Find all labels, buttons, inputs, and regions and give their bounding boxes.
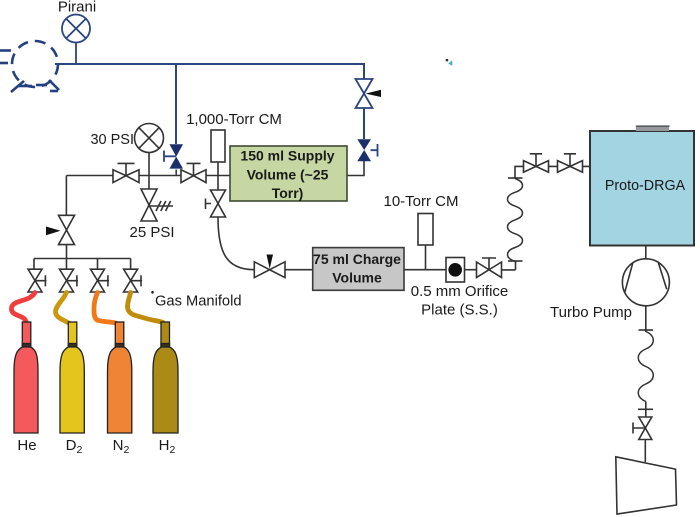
valve V4b (header bowtie right of V1, with stem) — [181, 163, 206, 182]
svg-text:10-Torr CM: 10-Torr CM — [383, 193, 458, 210]
hose D2 (gold) — [55, 293, 71, 325]
wire V11 to charge volume — [285, 269, 313, 271]
Proto-DRGA lid bar — [636, 127, 669, 131]
svg-text:150 ml Supply: 150 ml Supply — [240, 148, 334, 164]
wire supply manifold header — [66, 175, 230, 177]
wire coil to DRGA line — [515, 166, 589, 178]
flex hose FH1 upper tick — [508, 177, 523, 179]
svg-text:30 PSI: 30 PSI — [90, 132, 134, 148]
valve V9 (H2 cylinder valve) — [124, 269, 143, 292]
wire between V2 and V3 (blue) — [363, 108, 365, 139]
wire valve to flex hose — [502, 261, 516, 270]
wire gas manifold header — [34, 259, 131, 270]
wire main vacuum header (blue) — [55, 63, 364, 65]
supply volume tank (green box) — [230, 146, 347, 201]
valve V4 (header bowtie with stem) — [113, 163, 139, 182]
flex hose FH2 lower ticks — [638, 408, 653, 410]
wire V3 to supply volume — [347, 161, 364, 176]
cylinder D2 — [60, 322, 84, 433]
wire orifice to valve — [465, 269, 477, 271]
valve V8 (N2 cylinder valve) — [91, 269, 110, 292]
svg-text:Volume (~25: Volume (~25 — [247, 167, 329, 183]
capacitance manometer CM1 (1,000-Torr) — [211, 130, 225, 162]
charge volume tank (gray box) — [313, 248, 404, 291]
cylinder He — [14, 322, 38, 433]
wire valve to backing pump — [644, 440, 646, 463]
svg-text:25 PSI: 25 PSI — [129, 224, 174, 241]
valve V6 (He cylinder valve) — [28, 269, 47, 292]
svg-text:He: He — [17, 437, 36, 454]
wire turbo outlet — [645, 306, 647, 332]
svg-text:Pirani: Pirani — [58, 0, 96, 16]
svg-text:Proto-DRGA: Proto-DRGA — [605, 178, 686, 194]
regulator PRV1 (25 PSI relief) — [141, 176, 173, 222]
valve V5 (main manifold valve with arrow) — [59, 215, 75, 244]
valve V11 wedge — [267, 255, 274, 269]
cylinder N2 — [108, 322, 132, 433]
cylinder H2 — [153, 322, 178, 433]
flex hose FH2 upper tick — [639, 329, 654, 331]
wire charge volume to orifice — [404, 269, 446, 271]
valve V5 arrow — [46, 227, 61, 236]
svg-text:Torr): Torr) — [272, 185, 304, 201]
capacitance manometer CM2 (10-Torr) — [418, 214, 433, 246]
flex hose FH1 lower tick — [508, 260, 523, 262]
artifact blue speck — [446, 59, 449, 61]
svg-text:Gas Manifold: Gas Manifold — [155, 294, 242, 310]
valve V14 (DRGA line, with stem) — [558, 154, 583, 172]
label Gas Manifold — [151, 291, 154, 294]
orifice plate OR1 — [446, 258, 465, 283]
valve V15 (exhaust valve) — [633, 417, 652, 440]
svg-text:Turbo Pump: Turbo Pump — [550, 304, 632, 321]
wire DRGA to turbo — [645, 246, 647, 259]
capacitance manometer CM2 (10-Torr) stem — [425, 245, 427, 270]
wire branch down right (blue) — [363, 63, 365, 79]
hose N2 (orange) — [94, 293, 119, 327]
valve V3 (blue bellows, closed) — [357, 139, 377, 161]
Pirani gauge PI1 — [62, 15, 90, 64]
wire header left corner down — [65, 176, 67, 216]
svg-text:1,000-Torr CM: 1,000-Torr CM — [186, 111, 282, 128]
valve V2 arrow — [366, 90, 382, 97]
svg-text:Volume: Volume — [332, 270, 382, 286]
roughing pump P1 (dashed) — [0, 41, 59, 92]
svg-text:75 ml Charge: 75 ml Charge — [313, 251, 401, 267]
Proto-DRGA chamber — [590, 131, 694, 246]
flex hose FH1 (coil) — [508, 179, 523, 262]
svg-text:0.5 mm Orifice: 0.5 mm Orifice — [411, 283, 509, 300]
hose H2 (dark gold) — [128, 293, 166, 326]
svg-text:Plate (S.S.): Plate (S.S.) — [421, 302, 498, 319]
wire CM1 stem — [217, 162, 219, 176]
flex hose FH2 (coil) — [638, 332, 653, 402]
wire to exhaust valve — [645, 402, 647, 418]
valve V11 (charge inlet, wedge) — [254, 262, 285, 278]
wire V5 to gas manifold — [66, 245, 68, 259]
wire curve to charge valve — [218, 217, 254, 270]
turbo pump TP1 — [622, 259, 669, 306]
valve V2 (bellows with arrow) — [356, 79, 373, 108]
backing pump (trapezoid) — [616, 457, 677, 514]
valve V7 (D2 cylinder valve) — [60, 269, 79, 292]
pressure gauge PI2 (30 PSI) — [135, 124, 164, 176]
valve V1 (blue bellows, closed) — [164, 144, 183, 175]
valve V10 (below supply volume) — [206, 176, 226, 218]
hose He (red) — [11, 293, 35, 326]
wire branch down to supply manifold (blue) — [175, 64, 177, 144]
valve V12 (orifice outlet with stem) — [477, 258, 502, 278]
valve V13 (DRGA line, with stem) — [524, 154, 549, 172]
